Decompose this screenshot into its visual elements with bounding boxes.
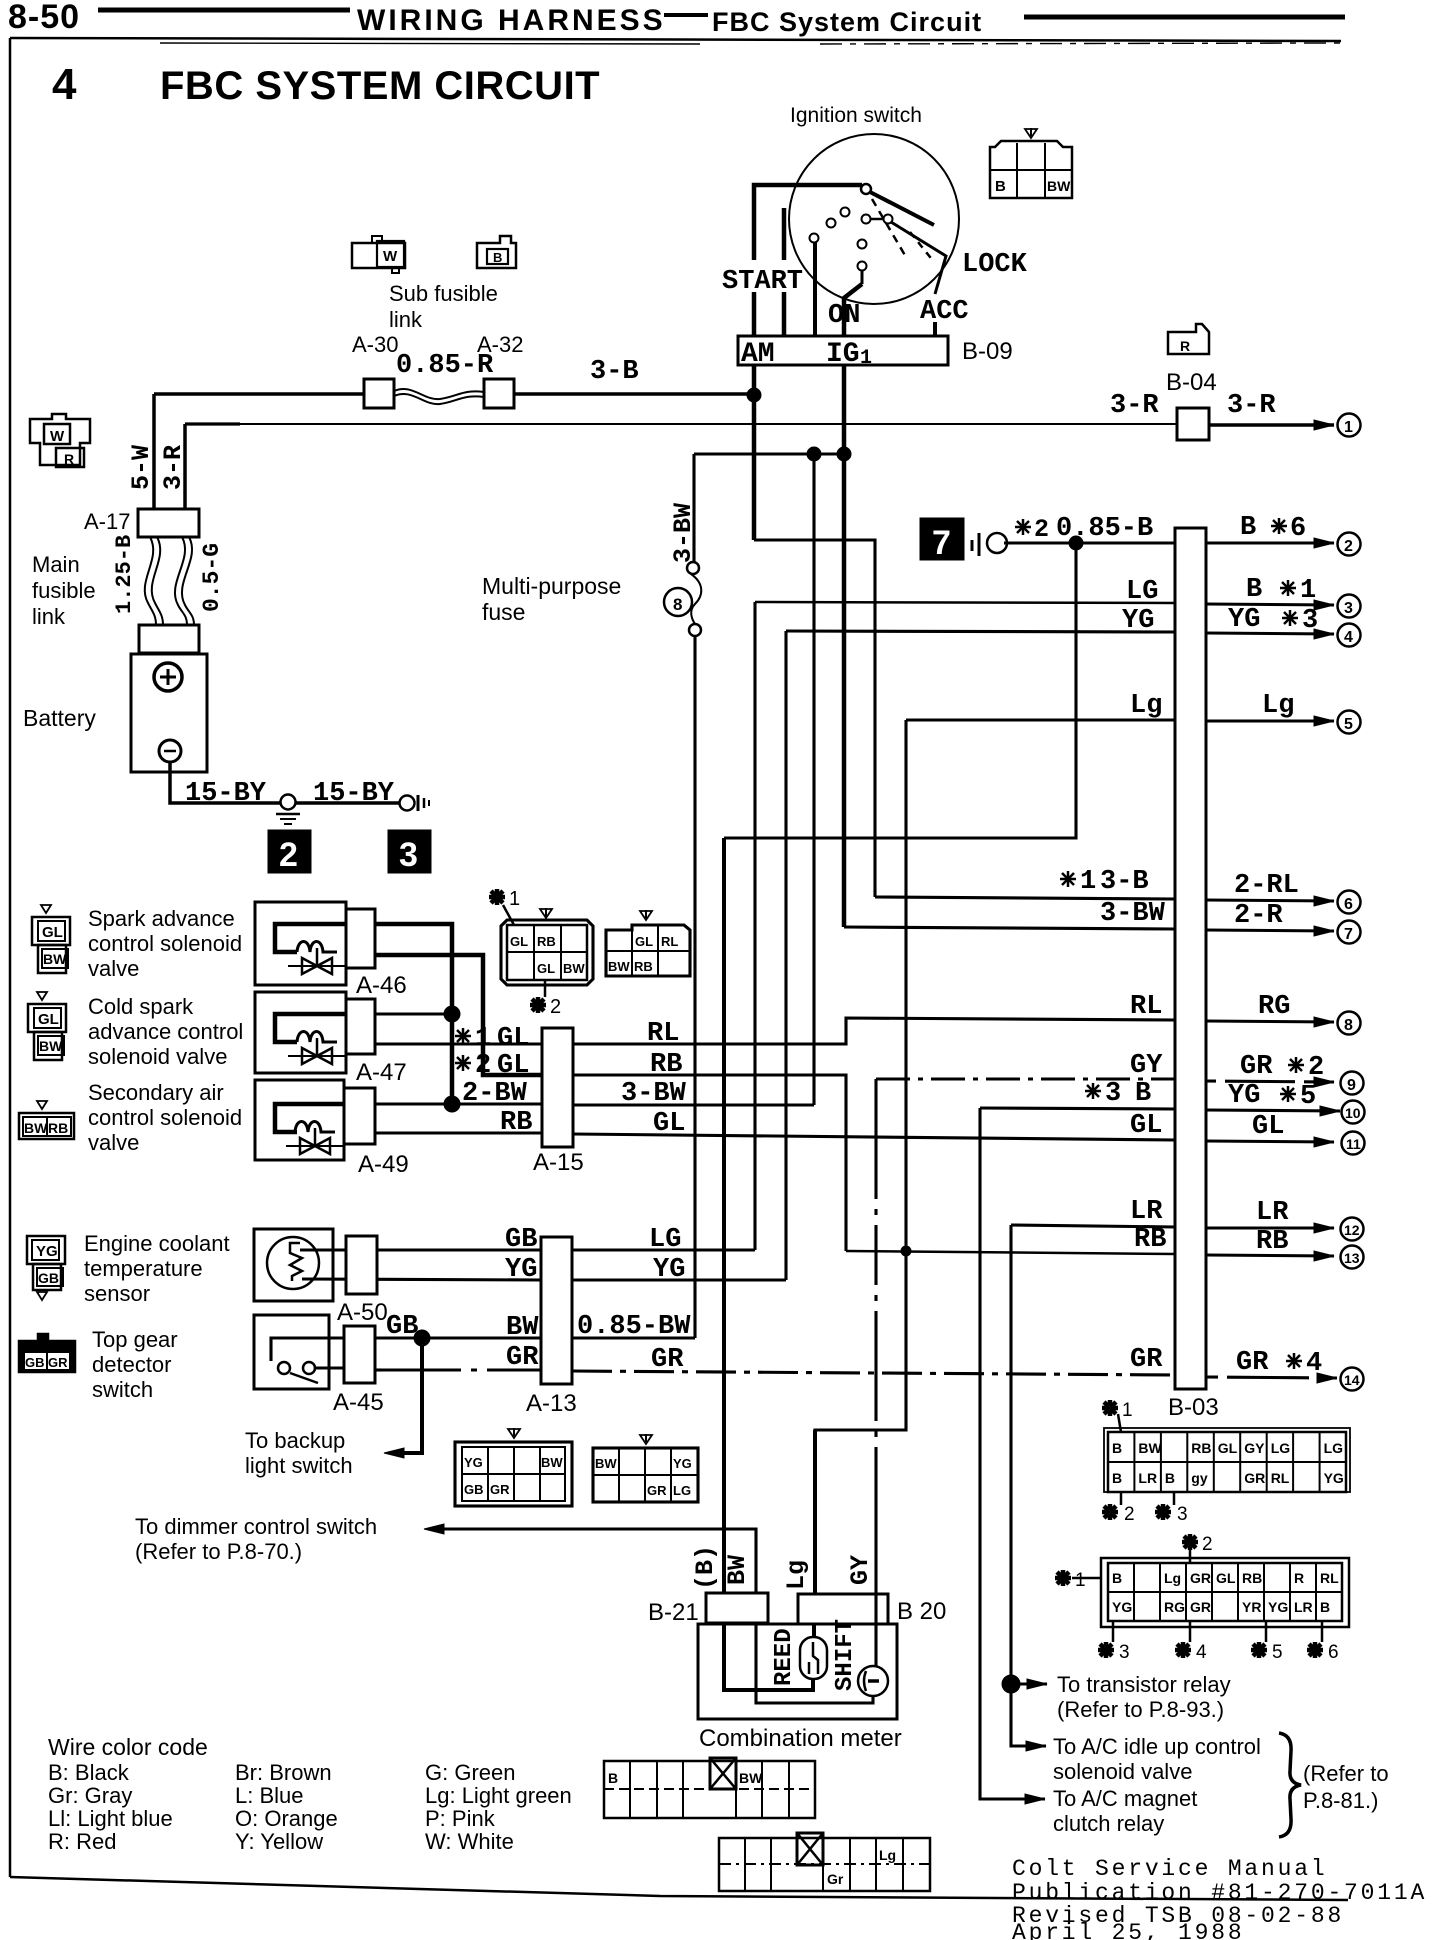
wire 0.85-BW from A-13: [572, 1336, 695, 1339]
brace: [1279, 1733, 1301, 1837]
svg-text:BW: BW: [608, 959, 630, 974]
svg-text:2-RL: 2-RL: [1234, 871, 1299, 901]
svg-text:3: 3: [1177, 1504, 1188, 1525]
svg-text:3-BW: 3-BW: [621, 1079, 687, 1109]
wire 2-RL to terminal 6: [1206, 900, 1334, 901]
svg-text:P: Pink: P: Pink: [425, 1806, 496, 1831]
wire Lg vertical: [815, 720, 906, 1594]
header rule mid: [664, 13, 708, 17]
solenoid valve A-47: [255, 992, 375, 1073]
svg-text:control solenoid: control solenoid: [88, 1105, 242, 1130]
svg-text:BW: BW: [739, 1770, 763, 1786]
terminal circle 10: [1342, 1101, 1365, 1124]
svg-text:GR: GR: [651, 1345, 684, 1375]
svg-text:LG: LG: [673, 1483, 691, 1498]
wire Lg to reed: [812, 1624, 816, 1638]
svg-text:A-30: A-30: [352, 332, 398, 357]
wire RG to terminal 8: [1206, 1021, 1334, 1022]
svg-text:8: 8: [1344, 1017, 1353, 1034]
svg-text:RB: RB: [500, 1108, 532, 1138]
svg-text:BW: BW: [1138, 1440, 1162, 1456]
wire YG from A-13: [572, 1278, 786, 1281]
svg-text:Ll: Light blue: Ll: Light blue: [48, 1806, 173, 1831]
svg-text:Colt Service Manual: Colt Service Manual: [1012, 1856, 1327, 1882]
svg-text:BW: BW: [43, 951, 67, 967]
svg-text:B: Black: B: Black: [48, 1760, 130, 1785]
svg-text:8: 8: [673, 595, 682, 614]
svg-text:fuse: fuse: [482, 599, 525, 625]
svg-text:RL: RL: [647, 1019, 679, 1049]
wire 3-BW left of bus: [844, 927, 1175, 929]
svg-text:2: 2: [550, 996, 561, 1018]
fuse element: [691, 574, 701, 624]
connector marks: [971, 540, 974, 551]
fuse lower contact: [689, 624, 701, 636]
wire A-46 top: [375, 924, 452, 1104]
svg-text:Lg: Lg: [1262, 691, 1294, 721]
svg-text:2: 2: [475, 1051, 491, 1081]
svg-text:10: 10: [1345, 1105, 1361, 1121]
wire 15-BY: [170, 762, 281, 803]
svg-text:GR: GR: [506, 1343, 539, 1373]
terminal circle 7: [1338, 921, 1361, 944]
svg-text:Combination meter: Combination meter: [699, 1725, 902, 1752]
wire LR down to transistor relay: [1011, 1225, 1046, 1746]
svg-text:BW: BW: [595, 1456, 617, 1471]
temp sensor box: [254, 1229, 333, 1301]
svg-text:To A/C magnet: To A/C magnet: [1053, 1786, 1197, 1811]
rough separator line: [10, 38, 1341, 41]
wire GL left of bus: [573, 1134, 1175, 1140]
header rule right: [1024, 15, 1345, 20]
svg-text:3: 3: [1119, 1642, 1130, 1663]
svg-text:6: 6: [1344, 896, 1353, 913]
wire 0.85-R to A-30: [154, 392, 364, 396]
wire 3-R to terminal 1: [1209, 423, 1334, 427]
wire to backup light switch: [396, 1338, 422, 1453]
svg-text:3: 3: [1302, 606, 1318, 636]
svg-text:GR: GR: [1244, 1470, 1265, 1486]
connector grid BW YG / GR LG: [593, 1434, 698, 1502]
header rule left: [98, 8, 350, 13]
fusible wavy wire right: [175, 537, 187, 625]
svg-text:Lg: Lg: [1130, 691, 1162, 721]
connector A-45: [344, 1326, 375, 1383]
svg-text:YG: YG: [1324, 1470, 1344, 1486]
node backup junction: [414, 1330, 430, 1346]
svg-text:B-21: B-21: [648, 1599, 699, 1626]
black square 2: [268, 830, 311, 873]
svg-text:1: 1: [1344, 419, 1353, 436]
ground symbol: [276, 813, 300, 816]
wire YG vertical: [784, 631, 787, 1280]
svg-text:14: 14: [1344, 1372, 1360, 1388]
wire AM down: [752, 365, 757, 540]
svg-text:link: link: [32, 604, 66, 629]
svg-text:11: 11: [1346, 1136, 1361, 1152]
wire BW from A-45: [375, 1336, 541, 1339]
svg-text:B: B: [608, 1770, 618, 1786]
wire lamp return: [756, 1623, 873, 1703]
svg-text:LOCK: LOCK: [962, 250, 1028, 280]
icon GL/BW 1: [32, 905, 70, 973]
connector A-32: [484, 379, 514, 408]
wire LR to terminal 12: [1206, 1226, 1334, 1229]
wire GR *2 to terminal 9: [1206, 1081, 1334, 1082]
svg-text:YG: YG: [1122, 606, 1154, 636]
svg-text:3-R: 3-R: [159, 445, 188, 490]
svg-text:START: START: [722, 267, 803, 297]
svg-text:Lg: Lg: [782, 1560, 811, 1590]
svg-text:advance control: advance control: [88, 1019, 243, 1044]
connector icon B (sub link): [477, 236, 516, 268]
wire 3-BW from A-15: [573, 1103, 814, 1106]
svg-text:0.5-G: 0.5-G: [199, 543, 225, 612]
connector table B-03 lower: [1101, 1558, 1349, 1627]
svg-text:YR: YR: [1242, 1599, 1261, 1615]
wire RB left of bus: [846, 1251, 1175, 1254]
svg-text:12: 12: [1344, 1222, 1360, 1238]
svg-text:GY: GY: [846, 1555, 875, 1585]
svg-text:Cold spark: Cold spark: [88, 994, 194, 1019]
svg-text:R: R: [1294, 1570, 1304, 1586]
connector A-17: [138, 509, 199, 537]
ignition contact e: [884, 215, 893, 224]
svg-text:B: B: [1320, 1599, 1330, 1615]
svg-text:B: B: [1165, 1470, 1175, 1486]
svg-text:April 25, 1988: April 25, 1988: [1012, 1920, 1244, 1940]
svg-text:6: 6: [1328, 1642, 1339, 1663]
wire start top: [752, 292, 757, 336]
connector A-30: [364, 379, 394, 408]
svg-text:2: 2: [1308, 1053, 1324, 1083]
svg-text:Engine coolant: Engine coolant: [84, 1231, 230, 1256]
star 4 mark t2: [1189, 1621, 1192, 1642]
svg-text:temperature: temperature: [84, 1256, 203, 1281]
connector A-15: [542, 1028, 573, 1147]
wire A-49 top (2-BW): [375, 1103, 542, 1106]
wire B *6 to terminal 2: [1206, 541, 1334, 544]
wire A-47 bottom (*1 GL): [375, 1043, 542, 1046]
svg-text:1: 1: [1080, 867, 1096, 897]
svg-text:GL: GL: [537, 961, 555, 976]
wire B down to AC magnet: [980, 1108, 1045, 1799]
svg-text:A-17: A-17: [84, 509, 130, 534]
contact link d-e: [870, 218, 884, 221]
connector A-13: [541, 1237, 572, 1384]
svg-text:Gr: Gr: [827, 1871, 844, 1887]
svg-text:GR: GR: [1190, 1599, 1211, 1615]
wire Lg to terminal 5: [1206, 719, 1334, 722]
wire B *1 to terminal 3: [1206, 604, 1334, 605]
svg-text:To dimmer control switch: To dimmer control switch: [135, 1514, 377, 1539]
svg-text:Y: Yellow: Y: Yellow: [235, 1829, 323, 1854]
svg-text:2-R: 2-R: [1234, 901, 1283, 931]
svg-text:Br: Brown: Br: Brown: [235, 1760, 332, 1785]
svg-text:To transistor relay: To transistor relay: [1057, 1672, 1231, 1697]
svg-text:A-49: A-49: [358, 1151, 409, 1178]
svg-text:1.25-B: 1.25-B: [112, 535, 137, 614]
svg-text:valve: valve: [88, 956, 139, 981]
svg-text:5: 5: [1300, 1082, 1316, 1112]
svg-text:GB: GB: [38, 1270, 59, 1286]
svg-text:BW: BW: [541, 1455, 563, 1470]
fusible wavy wire left: [145, 537, 156, 625]
svg-text:GL: GL: [635, 934, 653, 949]
svg-text:RB: RB: [537, 934, 556, 949]
svg-text:L: Blue: L: Blue: [235, 1783, 304, 1808]
svg-text:REED: REED: [771, 1628, 798, 1686]
svg-text:1: 1: [509, 888, 520, 910]
ignition contact a: [841, 208, 850, 217]
svg-text:WIRING HARNESS: WIRING HARNESS: [357, 4, 666, 37]
svg-text:B: B: [995, 178, 1006, 195]
svg-text:BW: BW: [24, 1120, 48, 1136]
svg-text:3-BW: 3-BW: [669, 503, 698, 563]
wire 3-B branch down: [812, 454, 815, 1105]
small connector grid GL RB / GL BW: [501, 908, 593, 985]
svg-text:GR: GR: [1236, 1348, 1269, 1378]
svg-text:9: 9: [1347, 1077, 1356, 1094]
wire *3 B left of bus: [980, 1108, 1175, 1109]
wire IG1 drop: [861, 270, 864, 284]
wire 3-R long line: [183, 424, 187, 509]
svg-text:link: link: [389, 307, 423, 332]
svg-text:4: 4: [1196, 1642, 1207, 1663]
node 0.85-B: [1069, 536, 1083, 550]
wire LG left of bus: [755, 602, 1175, 603]
svg-text:GY: GY: [1244, 1440, 1265, 1456]
svg-text:FBC SYSTEM CIRCUIT: FBC SYSTEM CIRCUIT: [160, 64, 600, 108]
svg-text:GR: GR: [48, 1355, 68, 1370]
wire LG vertical: [753, 602, 756, 1250]
wire 3-B horizontal to fuse: [694, 452, 844, 455]
connector B-20: [798, 1594, 888, 1624]
svg-text:GR: GR: [1240, 1052, 1273, 1082]
wire Lg left of bus: [906, 718, 1175, 721]
wire RB from A-15 to bus: [573, 1075, 846, 1251]
svg-text:(Refer to P.8-93.): (Refer to P.8-93.): [1057, 1697, 1224, 1722]
svg-text:A-15: A-15: [533, 1149, 584, 1176]
svg-text:RL: RL: [1320, 1570, 1339, 1586]
svg-text:2: 2: [1124, 1504, 1135, 1525]
svg-text:13: 13: [1344, 1250, 1360, 1266]
svg-text:LG: LG: [1324, 1440, 1344, 1456]
svg-text:4: 4: [1344, 629, 1353, 646]
svg-text:LG: LG: [1271, 1440, 1291, 1456]
svg-text:BW: BW: [563, 961, 585, 976]
svg-text:2: 2: [279, 836, 298, 874]
svg-text:FBC System Circuit: FBC System Circuit: [712, 7, 982, 37]
svg-text:R: Red: R: Red: [48, 1829, 116, 1854]
node transistor relay junction: [1002, 1675, 1020, 1693]
svg-text:5-W: 5-W: [127, 445, 156, 490]
svg-text:(Refer to: (Refer to: [1303, 1761, 1389, 1786]
svg-text:YG: YG: [653, 1255, 685, 1285]
wire GR from A-45: [375, 1368, 541, 1371]
svg-text:Battery: Battery: [23, 705, 96, 731]
svg-text:YG: YG: [1268, 1599, 1288, 1615]
connector A-50: [346, 1236, 377, 1294]
svg-text:RG: RG: [1258, 992, 1290, 1022]
svg-text:Multi-purpose: Multi-purpose: [482, 573, 621, 599]
svg-text:2: 2: [1034, 515, 1049, 544]
svg-text:6: 6: [1290, 514, 1306, 544]
wire YG *5 to terminal 10: [1206, 1110, 1340, 1111]
svg-text:Wire color code: Wire color code: [48, 1734, 208, 1760]
ignition rotor arm to LOCK: [870, 192, 934, 225]
svg-text:RB: RB: [1191, 1440, 1211, 1456]
small connector grid GL RL / BW RB: [606, 910, 690, 976]
svg-text:B: B: [1112, 1470, 1122, 1486]
svg-text:RB: RB: [48, 1120, 68, 1136]
connector icon W/R left: [30, 414, 90, 467]
terminal circle 2: [1338, 533, 1361, 556]
svg-text:RB: RB: [1256, 1227, 1288, 1257]
svg-text:2-BW: 2-BW: [462, 1079, 528, 1109]
node Lg RB crossing: [901, 1246, 911, 1256]
connector table B-03 upper: [1104, 1428, 1350, 1492]
svg-text:RL: RL: [1130, 992, 1162, 1022]
svg-text:solenoid valve: solenoid valve: [88, 1044, 227, 1069]
svg-text:3-B: 3-B: [590, 357, 639, 387]
svg-text:O: Orange: O: Orange: [235, 1806, 338, 1831]
twisted wire A-30/A-32: [394, 389, 484, 399]
svg-text:ON: ON: [828, 301, 860, 331]
svg-text:LR: LR: [1294, 1599, 1313, 1615]
svg-text:(B): (B): [691, 1545, 720, 1590]
icon BW/RB: [19, 1101, 74, 1139]
ignition switch circle: [789, 134, 959, 304]
svg-text:A-50: A-50: [337, 1299, 388, 1326]
svg-text:0.85-BW: 0.85-BW: [577, 1312, 691, 1342]
svg-text:A-46: A-46: [356, 972, 407, 999]
svg-text:LR: LR: [1130, 1197, 1163, 1227]
svg-text:7: 7: [1344, 926, 1353, 943]
svg-text:B-03: B-03: [1168, 1394, 1219, 1421]
svg-text:Lg: Light green: Lg: Light green: [425, 1783, 572, 1808]
wire GY dash-dot left of bus: [876, 1077, 1175, 1080]
svg-text:YG: YG: [36, 1243, 58, 1260]
svg-text:3-R: 3-R: [1110, 391, 1159, 421]
connector icon B/BW top right: [990, 128, 1072, 198]
icon YG/GB: [27, 1236, 65, 1300]
ignition contact b: [827, 219, 836, 228]
wire A-46 bottom (*2 GL): [375, 955, 542, 1075]
wire to dimmer control switch: [440, 1529, 756, 1593]
terminal circle 12: [1341, 1218, 1364, 1241]
svg-text:W: W: [50, 428, 65, 445]
temp sensor circle: [267, 1237, 319, 1289]
black square 7: [920, 518, 964, 560]
fuse number circle 8: [664, 588, 692, 616]
wire BW fuse down to A-13: [693, 636, 696, 1338]
connector grid X Gr Lg: [719, 1833, 930, 1891]
svg-text:15-BY: 15-BY: [313, 779, 395, 809]
terminal circle 14: [1341, 1368, 1364, 1391]
svg-text:B-09: B-09: [962, 338, 1013, 365]
svg-text:LG: LG: [1126, 577, 1158, 607]
svg-text:A-13: A-13: [526, 1390, 577, 1417]
svg-text:gy: gy: [1191, 1470, 1208, 1486]
wire 0.85-B: [1004, 541, 1175, 544]
node IG1 3-B junction: [837, 447, 851, 461]
svg-text:detector: detector: [92, 1352, 172, 1377]
temp sensor wires: [300, 1248, 541, 1251]
svg-text:G: Green: G: Green: [425, 1760, 515, 1785]
svg-text:GB: GB: [464, 1482, 484, 1497]
svg-text:1: 1: [475, 1024, 491, 1054]
wire RL left of bus: [573, 1018, 1175, 1044]
svg-text:1: 1: [1300, 576, 1316, 606]
svg-text:AM: AM: [741, 339, 775, 370]
svg-text:clutch relay: clutch relay: [1053, 1811, 1164, 1836]
svg-text:GR: GR: [490, 1482, 510, 1497]
wire 15-BY second: [295, 801, 399, 805]
wire GY to lamp: [874, 1594, 877, 1666]
svg-text:BW: BW: [506, 1313, 539, 1343]
wire 2-R to terminal 7: [1206, 930, 1334, 931]
terminal circle 4: [1338, 624, 1361, 647]
svg-text:3-R: 3-R: [1227, 391, 1276, 421]
svg-text:4: 4: [1306, 1349, 1322, 1379]
connector B-09: [738, 336, 948, 365]
terminal circle 6: [1338, 891, 1361, 914]
wire *1 3-B left of bus: [875, 897, 1175, 899]
svg-text:B: B: [1135, 1079, 1151, 1109]
svg-text:A-47: A-47: [356, 1059, 407, 1086]
svg-text:BW: BW: [1047, 178, 1071, 194]
svg-text:1: 1: [1075, 1570, 1086, 1591]
svg-text:GB: GB: [505, 1225, 537, 1255]
svg-text:1: 1: [860, 347, 872, 370]
connector icon R: [1168, 324, 1209, 354]
wire AM jog: [754, 540, 875, 897]
wire start 2: [782, 208, 787, 260]
svg-text:5: 5: [1344, 716, 1353, 733]
wire BW to reed: [724, 1624, 813, 1690]
star 1 at grid: [489, 889, 505, 905]
solenoid valve A-46: [255, 902, 375, 985]
svg-text:LR: LR: [1138, 1470, 1157, 1486]
svg-text:LR: LR: [1256, 1198, 1289, 1228]
svg-text:GL: GL: [38, 1011, 59, 1028]
svg-text:7: 7: [932, 524, 951, 562]
black square 3: [388, 830, 431, 873]
svg-text:15-BY: 15-BY: [185, 779, 267, 809]
svg-text:RL: RL: [1271, 1470, 1290, 1486]
svg-text:Top gear: Top gear: [92, 1327, 178, 1352]
terminal circle 5: [1338, 711, 1361, 734]
wire LG from A-13: [572, 1248, 755, 1251]
svg-text:light switch: light switch: [245, 1453, 353, 1478]
wire GY dashed vertical to B-20: [874, 1079, 877, 1594]
svg-text:2: 2: [1202, 1534, 1213, 1555]
svg-text:GL: GL: [1130, 1111, 1162, 1141]
star 3 mark t2: [1112, 1621, 1115, 1642]
svg-text:solenoid valve: solenoid valve: [1053, 1759, 1192, 1784]
node 3-B mid junction: [807, 447, 821, 461]
star 1 mark: [1102, 1400, 1118, 1416]
svg-text:R: R: [64, 451, 74, 467]
ground circle: [281, 795, 296, 810]
svg-text:GL: GL: [1252, 1112, 1284, 1142]
svg-text:fusible: fusible: [32, 578, 96, 603]
svg-text:1: 1: [1122, 1400, 1133, 1421]
wire A-47 top: [375, 1013, 452, 1016]
connector grid B / X BW: [604, 1758, 815, 1818]
svg-text:B: B: [1112, 1570, 1122, 1586]
